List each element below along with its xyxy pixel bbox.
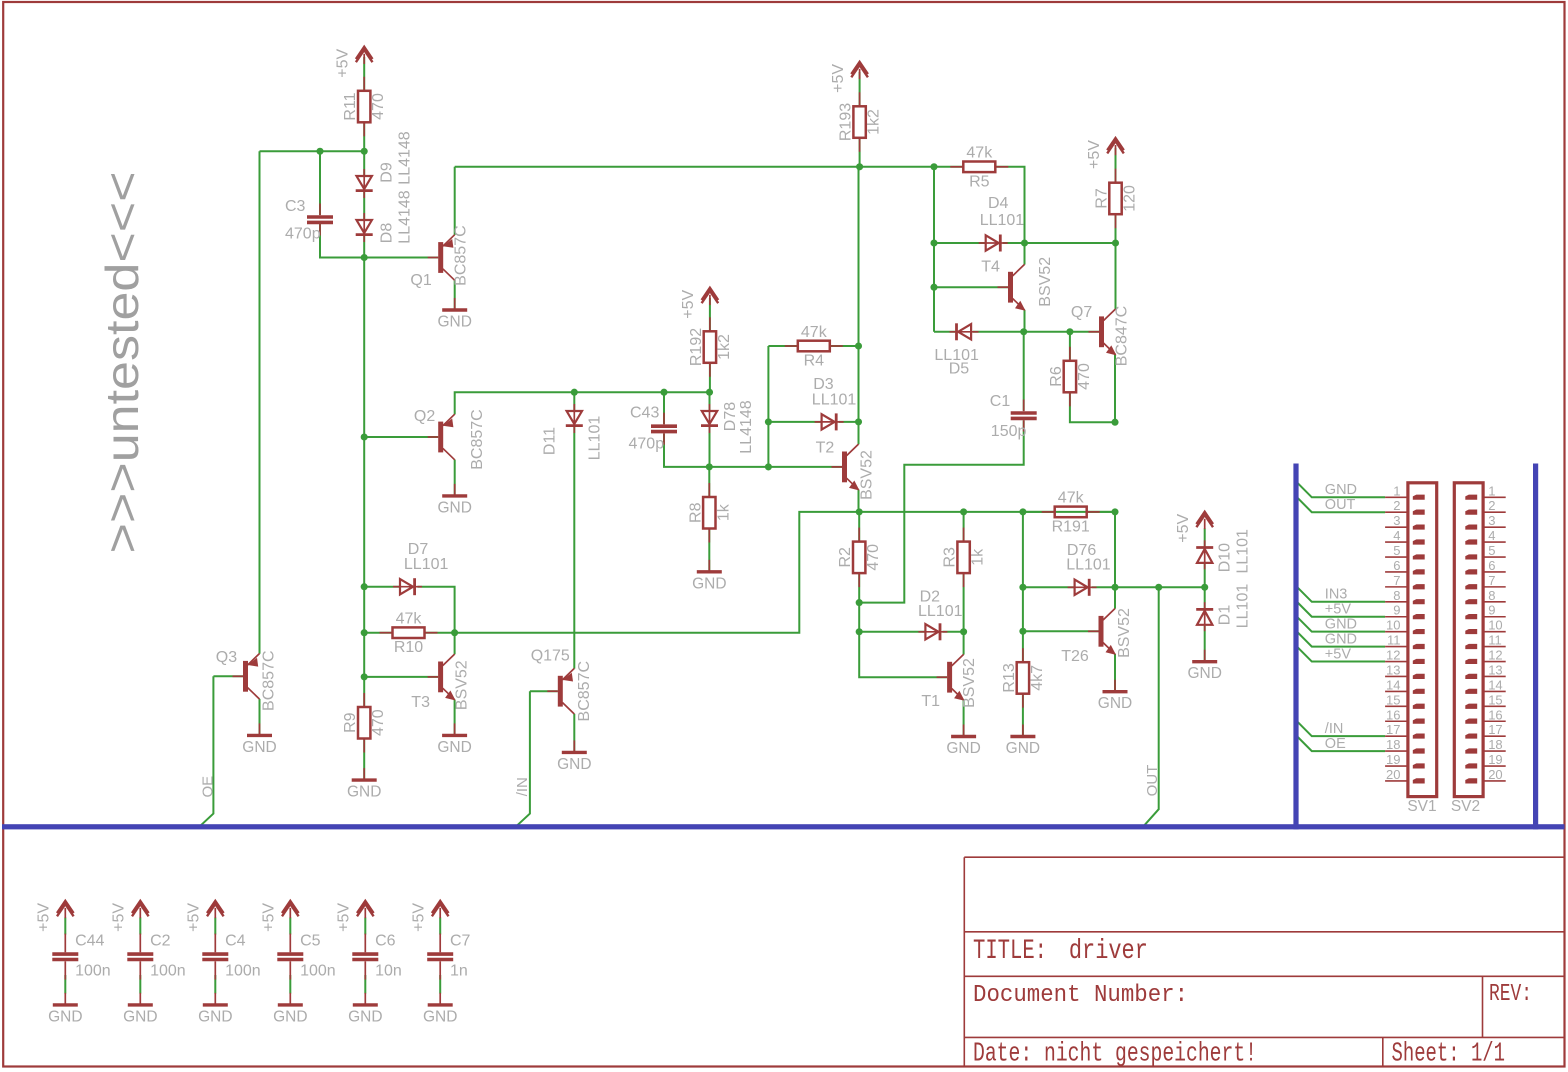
wire bypass cap 3 bottom: [289, 975, 291, 994]
svg-text:OUT: OUT: [1325, 497, 1356, 513]
wire D11 to Q175 emitter: [573, 426, 575, 669]
transistor Q1 BC857C: [428, 235, 455, 281]
svg-text:C44: C44: [75, 933, 104, 950]
transistor T26 BSV52: [1088, 609, 1116, 655]
svg-text:BC847C: BC847C: [1114, 306, 1131, 366]
resistor R3 1k: [942, 528, 987, 588]
wire R8 to GND: [708, 529, 710, 572]
wire net GND to SV1 pin 1: [1297, 482, 1385, 497]
svg-text:1: 1: [1488, 483, 1495, 498]
svg-text:LL101: LL101: [1235, 529, 1252, 574]
svg-text:D4: D4: [988, 195, 1009, 212]
wire D1 to GND: [1204, 626, 1206, 662]
svg-text:9: 9: [1393, 603, 1400, 618]
ground C7: [423, 993, 457, 1026]
+5V supply at R7: [1086, 138, 1124, 169]
svg-text:120: 120: [1122, 185, 1139, 212]
+5V supply at R11: [335, 47, 373, 78]
junction: [1155, 584, 1162, 591]
junction: [361, 148, 368, 155]
svg-text:Q7: Q7: [1071, 304, 1092, 321]
svg-text:6: 6: [1393, 558, 1400, 573]
ground Q175: [557, 740, 591, 773]
junction: [765, 418, 772, 425]
capacitor C7 1n: [427, 934, 453, 980]
svg-text:470: 470: [865, 544, 882, 571]
transistor Q2 BC857C: [428, 414, 455, 460]
junction: [1066, 328, 1073, 335]
junction: [361, 629, 368, 636]
junction: [1021, 239, 1028, 246]
svg-text:470p: 470p: [285, 226, 321, 243]
svg-text:GND: GND: [1187, 665, 1221, 682]
wire R11 to D9: [363, 151, 365, 176]
svg-text:47k: 47k: [1058, 490, 1085, 507]
wire D2 right: [943, 631, 964, 633]
transistor Q7 BC847C: [1089, 309, 1117, 355]
svg-text:47k: 47k: [801, 324, 828, 341]
wire main left vertical: [363, 258, 365, 677]
ground C4: [198, 993, 232, 1026]
svg-text:10n: 10n: [375, 963, 402, 980]
wire T3 collector: [454, 633, 456, 655]
+5V supply at C4: [186, 901, 224, 932]
diode D7 LL101: [393, 578, 422, 595]
junction: [960, 628, 967, 635]
wire D3 right: [839, 421, 859, 423]
wire R4 right: [830, 345, 859, 347]
wire R193 down: [859, 138, 861, 167]
wire R7 down: [1115, 214, 1117, 243]
svg-text:R13: R13: [1001, 663, 1018, 692]
wire T4 base: [934, 286, 1008, 288]
wire net IN3 to SV1 pin 8: [1297, 587, 1385, 602]
wire to R8: [708, 467, 710, 497]
svg-text:3: 3: [1393, 513, 1400, 528]
svg-text:R191: R191: [1052, 518, 1090, 535]
diode D3 LL101: [815, 413, 844, 430]
resistor R7 120: [1094, 169, 1139, 229]
wire T26 emitter to GND: [1114, 654, 1116, 692]
svg-text:BC857C: BC857C: [261, 650, 278, 710]
ground T26: [1098, 680, 1132, 713]
wire to R191: [1023, 511, 1055, 513]
ground C2: [123, 993, 157, 1026]
wire /IN to bus: [517, 691, 530, 826]
capacitor C44 100n: [52, 934, 78, 980]
svg-text:15: 15: [1386, 692, 1400, 707]
wire bypass cap 0 bottom: [64, 975, 66, 994]
svg-text:C6: C6: [375, 933, 396, 950]
svg-text:47k: 47k: [396, 611, 423, 628]
svg-text:17: 17: [1488, 722, 1502, 737]
svg-text:D10: D10: [1217, 543, 1234, 572]
wire T26 collector: [1114, 587, 1116, 608]
junction: [1111, 419, 1118, 426]
svg-text:19: 19: [1488, 752, 1502, 767]
svg-text:+5V: +5V: [335, 49, 352, 78]
transistor T1 BSV52: [937, 654, 965, 700]
svg-text:11: 11: [1488, 633, 1502, 648]
bus bar vertical left: [1293, 464, 1298, 830]
wire bypass cap 4 bottom: [364, 975, 366, 994]
svg-text:GND: GND: [1098, 695, 1132, 712]
svg-text:GND: GND: [48, 1008, 82, 1025]
wire Q2 base: [364, 436, 438, 438]
connector SV1: [1385, 483, 1437, 815]
svg-text:LL101: LL101: [1066, 557, 1111, 574]
capacitor C6 10n: [352, 934, 378, 980]
wire vertical to T26: [1114, 512, 1116, 587]
svg-text:100n: 100n: [150, 963, 186, 980]
svg-text:D5: D5: [949, 361, 970, 378]
svg-text:GND: GND: [347, 784, 381, 801]
svg-text:+5V: +5V: [111, 903, 128, 932]
svg-text:REV:: REV:: [1489, 981, 1532, 1008]
svg-text:5: 5: [1488, 543, 1495, 558]
wire T1 emitter to GND: [963, 700, 965, 736]
svg-text:T4: T4: [981, 259, 1000, 276]
wire bypass cap 5 bottom: [439, 975, 441, 994]
wire to D76: [1023, 586, 1075, 588]
diode D4 LL101: [979, 235, 1008, 252]
title block: [964, 857, 1564, 1069]
junction: [361, 254, 368, 261]
wire R2 down: [858, 573, 860, 603]
svg-text:3: 3: [1488, 513, 1495, 528]
wire R4 branch vertical: [767, 346, 769, 467]
wire Q1 emitter to top net: [454, 167, 456, 235]
transistor T3 BSV52: [428, 654, 456, 700]
wire R6 to Q7 emitter node: [1070, 392, 1115, 422]
svg-text:C43: C43: [630, 405, 659, 422]
svg-text:+5V: +5V: [261, 903, 278, 932]
ground Q1: [437, 298, 471, 331]
svg-text:C1: C1: [990, 393, 1011, 410]
wire +5V to R193: [859, 72, 861, 106]
wire to D4: [934, 242, 986, 244]
wire net OE to SV1 pin 18: [1297, 736, 1385, 751]
svg-text:12: 12: [1488, 648, 1502, 663]
ground R8: [692, 560, 726, 593]
ground T1: [946, 725, 980, 758]
junction: [361, 433, 368, 440]
resistor R10 47k: [380, 611, 438, 657]
svg-text:LL4148: LL4148: [397, 190, 414, 243]
wire Q1 collector to GND: [454, 280, 456, 310]
svg-text:R5: R5: [969, 173, 990, 190]
+5V supply at R193: [830, 62, 868, 93]
junction: [855, 418, 862, 425]
svg-text:R4: R4: [804, 353, 825, 370]
svg-text:8: 8: [1393, 588, 1400, 603]
svg-text:D3: D3: [813, 376, 834, 393]
transistor Q175 BC857C: [547, 668, 574, 714]
junction: [361, 673, 368, 680]
capacitor C4 100n: [202, 934, 228, 980]
wire D4 right: [1003, 242, 1116, 244]
svg-text:C4: C4: [225, 933, 246, 950]
junction: [856, 163, 863, 170]
svg-text:100n: 100n: [300, 963, 336, 980]
wire C3 bottom to Q1 base: [320, 224, 438, 258]
svg-text:470: 470: [1076, 363, 1093, 390]
svg-text:2: 2: [1488, 498, 1495, 513]
capacitor C2 100n: [127, 934, 153, 980]
ground C44: [48, 993, 82, 1026]
svg-text:driver: driver: [1069, 936, 1148, 967]
svg-text:D9: D9: [379, 162, 396, 183]
wire bypass cap 3 top: [289, 918, 291, 935]
wire to R9: [363, 677, 365, 707]
wire Q3 base: [213, 675, 243, 677]
svg-text:R193: R193: [838, 103, 855, 141]
diode D1 LL101: [1196, 602, 1213, 631]
svg-text:Document Number:: Document Number:: [973, 982, 1188, 1009]
svg-text:BSV52: BSV52: [1037, 257, 1054, 307]
wire T3 base: [364, 676, 438, 678]
wire D5 to Q7 base: [973, 331, 1099, 333]
svg-text:GND: GND: [348, 1008, 382, 1025]
diode D11 LL101: [566, 404, 583, 433]
wire D10 down: [1204, 564, 1206, 587]
capacitor C5 100n: [277, 934, 303, 980]
svg-text:17: 17: [1386, 722, 1400, 737]
svg-text:R7: R7: [1094, 188, 1111, 209]
svg-text:11: 11: [1387, 633, 1401, 648]
svg-text:/IN: /IN: [514, 777, 531, 796]
svg-text:1k2: 1k2: [716, 334, 733, 360]
svg-text:T1: T1: [921, 693, 940, 710]
wire R193 vertical: [858, 167, 860, 422]
svg-text:Q3: Q3: [216, 649, 237, 666]
svg-text:7: 7: [1393, 573, 1400, 588]
svg-text:LL101: LL101: [587, 416, 604, 461]
junction: [930, 239, 937, 246]
wire top net Q1-R193-R5: [455, 166, 934, 168]
diode D8 LL4148: [356, 213, 373, 242]
svg-text:Q175: Q175: [531, 648, 570, 665]
wire R191 right: [1087, 511, 1115, 513]
wire to R3: [963, 512, 965, 542]
wire to D2: [859, 631, 925, 633]
bus bar horizontal: [2, 824, 1565, 829]
wire net +5V to SV1 pin 12: [1297, 647, 1385, 662]
svg-text:C3: C3: [285, 198, 306, 215]
svg-text:15: 15: [1488, 692, 1502, 707]
svg-text:13: 13: [1386, 662, 1400, 677]
svg-text:/IN: /IN: [1325, 721, 1344, 737]
ground C6: [348, 993, 382, 1026]
resistor R6 470: [1048, 347, 1093, 407]
junction: [1111, 584, 1118, 591]
wire to R13: [1022, 631, 1024, 662]
svg-text:13: 13: [1488, 662, 1502, 677]
svg-text:5: 5: [1393, 543, 1400, 558]
wire OUT to bus: [1144, 587, 1159, 826]
svg-text:LL101: LL101: [1235, 584, 1252, 629]
wire R191 branch vertical: [1022, 512, 1024, 631]
wire net GND to SV1 pin 10: [1297, 617, 1385, 632]
junction: [706, 389, 713, 396]
svg-text:10: 10: [1386, 618, 1400, 633]
ground Q3: [242, 723, 276, 756]
svg-text:7: 7: [1488, 573, 1495, 588]
+5V supply at C7: [411, 901, 449, 932]
junction: [1019, 584, 1026, 591]
wire +5V to R192: [709, 298, 711, 331]
wire T4 emitter: [1024, 310, 1026, 332]
resistor R4 47k: [785, 324, 843, 370]
svg-text:OE: OE: [199, 776, 216, 798]
svg-text:LL101: LL101: [404, 556, 449, 573]
wire Q175 base: [530, 690, 558, 692]
wire C3 top: [319, 151, 321, 215]
wire Q7 collector: [1115, 243, 1117, 309]
junction: [1019, 628, 1026, 635]
svg-text:100n: 100n: [225, 963, 261, 980]
svg-text:+5V: +5V: [1325, 646, 1352, 662]
svg-text:47k: 47k: [966, 145, 993, 162]
wire bypass cap 1 top: [139, 918, 141, 935]
ground T3: [437, 723, 471, 756]
junction: [1019, 508, 1026, 515]
+5V supply at C6: [336, 901, 374, 932]
wire net /IN to SV1 pin 17: [1297, 721, 1385, 736]
wire D78 down: [709, 426, 711, 467]
svg-text:+5V: +5V: [186, 903, 203, 932]
svg-text:GND: GND: [1325, 482, 1357, 498]
svg-text:470: 470: [370, 93, 387, 120]
diode D5 LL101: [950, 323, 979, 340]
ground R13: [1006, 725, 1040, 758]
svg-text:GND: GND: [946, 740, 980, 757]
bus bar vertical right: [1533, 464, 1538, 830]
svg-text:GND: GND: [437, 739, 471, 756]
diode D78 LL4148: [701, 404, 718, 433]
resistor R191 47k: [1042, 490, 1100, 536]
wire bypass cap 5 top: [439, 918, 441, 935]
svg-text:GND: GND: [242, 739, 276, 756]
svg-text:SV2: SV2: [1451, 798, 1480, 815]
capacitor C43 470p: [651, 413, 677, 445]
svg-text:R10: R10: [394, 639, 423, 656]
svg-text:GND: GND: [1325, 616, 1357, 632]
svg-text:>>>untested<<<: >>>untested<<<: [96, 171, 148, 553]
svg-text:+5V: +5V: [830, 64, 847, 93]
resistor R9 470: [342, 693, 387, 753]
svg-text:T3: T3: [411, 694, 430, 711]
wire C1 top: [1023, 332, 1025, 411]
wire Q3 collector to GND: [259, 699, 261, 736]
wire R11 down: [363, 122, 365, 151]
svg-text:GND: GND: [437, 499, 471, 516]
resistor R13 4k7: [1001, 648, 1046, 708]
svg-text:R6: R6: [1048, 366, 1065, 387]
svg-text:OE: OE: [1325, 736, 1346, 752]
svg-text:4: 4: [1393, 528, 1400, 543]
svg-text:470: 470: [370, 709, 387, 736]
junction: [930, 284, 937, 291]
svg-text:470p: 470p: [629, 436, 665, 453]
svg-text:100n: 100n: [75, 963, 111, 980]
junction: [855, 342, 862, 349]
resistor R8 1k: [687, 483, 732, 543]
wire bypass cap 2 top: [214, 918, 216, 935]
svg-text:4: 4: [1488, 528, 1495, 543]
svg-text:GND: GND: [198, 1008, 232, 1025]
wire Q2 emitter to top net: [455, 392, 710, 414]
svg-text:C2: C2: [150, 933, 171, 950]
junction: [361, 583, 368, 590]
svg-text:+5V: +5V: [1175, 514, 1192, 543]
svg-text:LL4148: LL4148: [738, 400, 755, 453]
junction: [856, 508, 863, 515]
svg-text:GND: GND: [423, 1008, 457, 1025]
wire C43 to T2 base: [664, 434, 842, 467]
wire +5V to D10: [1204, 528, 1206, 547]
svg-text:9: 9: [1488, 603, 1495, 618]
wire net +5V to SV1 pin 9: [1297, 602, 1385, 617]
svg-text:GND: GND: [273, 1008, 307, 1025]
wire to D1: [1204, 587, 1206, 610]
svg-text:1k: 1k: [715, 503, 732, 521]
wire D76 right to D1: [1092, 586, 1205, 588]
svg-text:BSV52: BSV52: [961, 658, 978, 708]
transistor Q3 BC857C: [233, 654, 260, 700]
resistor R11 470: [342, 77, 387, 137]
junction: [1020, 328, 1027, 335]
wire R13 to GND: [1022, 694, 1024, 737]
junction: [1111, 508, 1118, 515]
wire Q175 collector to GND: [573, 714, 575, 753]
svg-text:12: 12: [1386, 648, 1400, 663]
svg-text:16: 16: [1488, 707, 1502, 722]
svg-text:R192: R192: [688, 328, 705, 366]
ground C5: [273, 993, 307, 1026]
wire R9 to GND: [363, 739, 365, 781]
junction: [660, 389, 667, 396]
connector SV2: [1451, 483, 1506, 815]
svg-text:14: 14: [1488, 677, 1502, 692]
svg-text:BC857C: BC857C: [469, 409, 486, 469]
svg-text:GND: GND: [692, 575, 726, 592]
svg-text:8: 8: [1488, 588, 1495, 603]
svg-text:+5V: +5V: [1325, 602, 1352, 618]
svg-text:16: 16: [1386, 707, 1400, 722]
junction: [960, 508, 967, 515]
junction: [706, 463, 713, 470]
svg-text:T26: T26: [1061, 648, 1089, 665]
junction: [451, 629, 458, 636]
wire to R4: [768, 345, 797, 347]
wire D7 to R10 node: [418, 587, 455, 633]
svg-text:GND: GND: [1325, 631, 1357, 647]
junction: [765, 463, 772, 470]
wire Q3 emitter vertical: [259, 151, 261, 653]
wire to R10: [364, 632, 392, 634]
svg-text:BC857C: BC857C: [576, 661, 593, 721]
svg-text:20: 20: [1386, 767, 1400, 782]
ground D1: [1187, 650, 1221, 683]
resistor R193 1k2: [838, 92, 883, 152]
svg-text:BSV52: BSV52: [859, 450, 876, 500]
svg-text:R3: R3: [942, 547, 959, 568]
svg-text:BSV52: BSV52: [454, 660, 471, 710]
junction: [856, 599, 863, 606]
wire T4 collector: [1024, 243, 1026, 265]
wire T2 collector: [858, 422, 860, 444]
